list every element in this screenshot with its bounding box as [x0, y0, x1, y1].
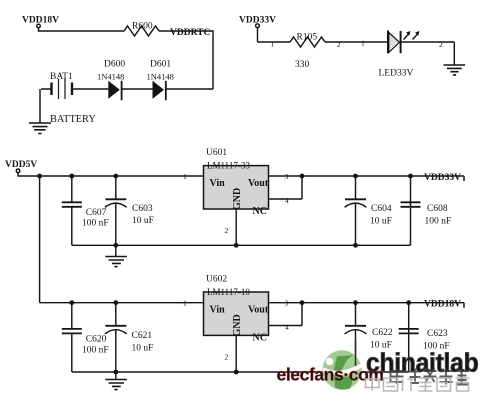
- svg-text:VDD5V: VDD5V: [5, 160, 37, 170]
- svg-text:C621: C621: [132, 331, 153, 341]
- svg-text:U602: U602: [206, 275, 227, 285]
- svg-text:1: 1: [271, 40, 275, 49]
- svg-text:R600: R600: [132, 22, 153, 32]
- svg-text:C604: C604: [371, 204, 392, 214]
- svg-text:Vin: Vin: [210, 305, 226, 316]
- svg-text:1: 1: [183, 299, 187, 308]
- svg-text:100 nF: 100 nF: [82, 346, 109, 356]
- svg-text:R105: R105: [297, 33, 318, 43]
- svg-text:100 nF: 100 nF: [425, 217, 452, 227]
- svg-text:330: 330: [295, 60, 310, 70]
- svg-text:4: 4: [285, 323, 289, 332]
- svg-text:100 nF: 100 nF: [82, 219, 109, 229]
- svg-text:VDDRTC: VDDRTC: [170, 28, 210, 38]
- svg-text:D601: D601: [150, 60, 171, 70]
- svg-text:3: 3: [285, 299, 289, 308]
- svg-text:LED33V: LED33V: [379, 69, 414, 79]
- svg-text:Vout: Vout: [248, 305, 269, 316]
- svg-text:2: 2: [225, 226, 229, 235]
- svg-text:VDD33V: VDD33V: [424, 173, 461, 183]
- svg-text:NC: NC: [253, 206, 267, 217]
- svg-text:C607: C607: [86, 208, 107, 218]
- svg-text:LM1117-10: LM1117-10: [207, 287, 250, 297]
- svg-text:2: 2: [439, 40, 443, 49]
- svg-text:U601: U601: [206, 148, 227, 158]
- svg-text:10 uF: 10 uF: [370, 217, 392, 227]
- svg-text:2: 2: [337, 40, 341, 49]
- svg-text:1: 1: [361, 39, 365, 48]
- svg-text:BATTERY: BATTERY: [50, 114, 96, 125]
- svg-text:C603: C603: [132, 204, 153, 214]
- svg-text:C608: C608: [427, 204, 448, 214]
- svg-text:1: 1: [183, 172, 187, 181]
- svg-text:10 uF: 10 uF: [132, 344, 154, 354]
- svg-text:VDD33V: VDD33V: [239, 15, 276, 25]
- svg-text:4: 4: [285, 196, 289, 205]
- svg-text:10 uF: 10 uF: [132, 216, 154, 226]
- svg-text:Vin: Vin: [210, 178, 226, 189]
- svg-text:1N4148: 1N4148: [147, 72, 174, 82]
- svg-text:VDD18V: VDD18V: [424, 300, 461, 310]
- svg-text:GND: GND: [232, 314, 243, 336]
- svg-text:C620: C620: [86, 335, 107, 345]
- svg-text:3: 3: [285, 172, 289, 181]
- svg-text:GND: GND: [232, 188, 243, 210]
- svg-text:C623: C623: [427, 329, 448, 339]
- svg-text:BAT1: BAT1: [50, 72, 73, 82]
- svg-text:elecfans·com: elecfans·com: [277, 365, 384, 385]
- svg-text:NC: NC: [253, 333, 267, 344]
- svg-text:LM1117-33: LM1117-33: [207, 161, 250, 171]
- svg-text:VDD18V: VDD18V: [22, 15, 59, 25]
- svg-text:2: 2: [225, 353, 229, 362]
- svg-text:1N4148: 1N4148: [97, 72, 124, 82]
- svg-text:C622: C622: [372, 328, 393, 338]
- svg-text:D600: D600: [104, 60, 125, 70]
- svg-text:Vout: Vout: [248, 178, 269, 189]
